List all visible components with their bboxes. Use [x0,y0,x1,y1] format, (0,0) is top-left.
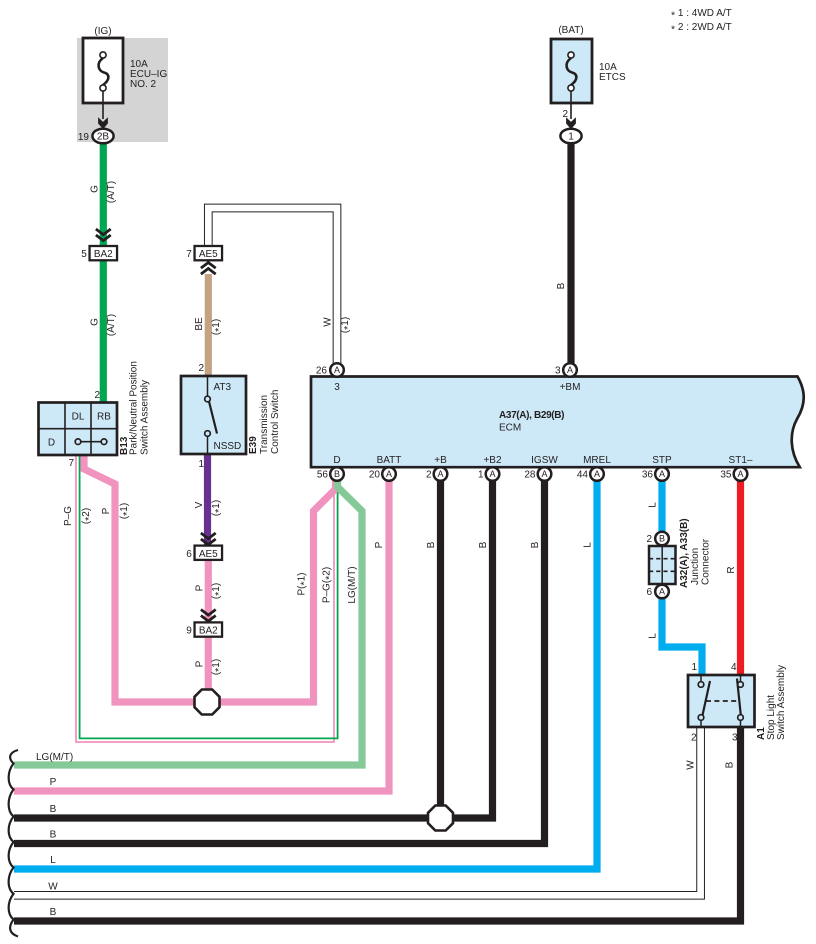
chevrons into connector BA2 pin 9 [201,610,216,622]
svg-text:6: 6 [646,587,652,598]
svg-text:A: A [437,469,443,479]
svg-text:NSSD: NSSD [214,441,242,452]
junction node (black splice) [428,806,453,831]
svg-text:(*​1): (*​1) [211,319,225,335]
svg-text:7: 7 [68,458,74,469]
svg-text:+BM: +BM [560,382,581,393]
connector AE5 pin 7 [195,246,223,260]
ECM top pin 26 (A) [330,363,344,377]
wire P (*1) junction node to ECM pin 56 [207,478,336,702]
svg-text:2: 2 [198,363,204,374]
svg-text:2: 2 [426,470,432,481]
svg-text:(A/T): (A/T) [106,181,117,203]
chevrons out of connector AE5 pin 7 [201,263,216,275]
svg-text:P: P [101,507,112,514]
svg-text:W: W [48,882,58,893]
ECM pin 56 (B) [330,467,344,481]
svg-text:P: P [195,660,206,667]
svg-text:IGSW: IGSW [531,455,558,466]
svg-text:6: 6 [186,549,192,560]
svg-text:7: 7 [186,249,192,260]
wire B ECM pin 1 +B2 to junction node [450,474,493,818]
svg-text:2: 2 [691,733,697,744]
svg-text:Junction: Junction [690,548,701,585]
svg-text:A: A [659,587,665,597]
svg-text:LG(M/T): LG(M/T) [36,752,73,763]
junction node (pink splice) [195,690,220,715]
connector BA2 pin 5 [90,246,118,260]
svg-text:A: A [737,469,743,479]
svg-text:G: G [90,318,101,326]
wire P-G (*2) B13 pin 7 to ECM pin 56 (pink strand) [76,455,334,742]
svg-text:BA2: BA2 [199,626,218,637]
svg-text:(*​1): (*​1) [211,583,225,599]
svg-text:B: B [334,469,340,479]
svg-text:D: D [333,455,340,466]
svg-text:R: R [726,566,737,573]
wire P (*1) B13 pin 7 to junction node [84,455,207,702]
wire L ECM pin 36 STP to junction connector [658,474,665,538]
svg-text:LG(M/T): LG(M/T) [347,566,358,603]
wire B ECM pin 2 +B to junction node [437,474,444,702]
svg-text:3: 3 [334,382,340,393]
svg-text:RB: RB [97,412,111,423]
svg-text:ECM: ECM [499,423,521,434]
svg-text:2: 2 [562,109,568,120]
switch E39 transmission control switch [181,376,246,454]
fuse block (IG) shaded area [77,38,168,142]
wire BE (*1) connector AE5 to E39 pin 2 [205,274,212,377]
svg-text:P–G: P–G [63,506,74,526]
svg-text:ETCS: ETCS [599,72,626,83]
svg-text:A32(A), A33(B): A32(A), A33(B) [679,518,690,588]
svg-text:B: B [659,534,665,544]
svg-text:L: L [648,633,659,639]
svg-text:B: B [50,907,57,918]
svg-text:B: B [426,541,437,548]
svg-text:L: L [583,542,594,548]
svg-text:(A/T): (A/T) [106,314,117,336]
svg-text:ST1–: ST1– [729,455,753,466]
wire W (*1) connector AE5 to ECM pin 26 (outline) [208,208,337,364]
svg-text:Switch Assembly: Switch Assembly [140,380,151,455]
svg-text:B: B [50,830,57,841]
svg-text:Connector: Connector [701,538,712,585]
svg-text:(IG): (IG) [94,26,111,37]
svg-text:W: W [686,760,697,770]
svg-text:G: G [90,185,101,193]
svg-text:A: A [659,469,665,479]
wire P ECM pin 20 BATT to left edge [14,474,389,791]
wire B ECM pin 28 IGSW to left edge [14,474,545,844]
wire LG(M/T) ECM pin 56 to left edge [14,478,362,765]
wire P-G (*2) B13 pin 7 to ECM pin 56 (green strand) [80,455,338,738]
svg-text:19: 19 [78,132,90,143]
switch blade E39 [209,402,217,434]
svg-text:P(*​1): P(*​1) [297,573,311,596]
svg-text:V: V [194,501,205,508]
svg-text:BA2: BA2 [94,249,113,260]
svg-text:E39: E39 [248,436,259,454]
svg-text:AE5: AE5 [199,549,218,560]
wire fuse ETCS pin 2 to connector 1 [570,91,572,119]
junction connector pin 6 (A) [655,585,669,599]
svg-text:P: P [195,584,206,591]
arrow into connector 2B [98,117,108,129]
connector AE5 pin 6 [195,546,223,560]
svg-text:Transmission: Transmission [259,395,270,454]
wire B stop light switch pin 3 to left edge [14,727,741,921]
ECM pin 28 (A) [538,467,552,481]
svg-text:A: A [567,365,573,375]
svg-text:A: A [541,469,547,479]
svg-text:26: 26 [316,366,328,377]
svg-text:NO. 2: NO. 2 [130,79,157,90]
ECM pin 36 (A) [655,467,669,481]
svg-text:B: B [50,804,57,815]
svg-text:A: A [386,469,392,479]
svg-text:(*​2): (*​2) [81,508,95,524]
svg-text:Control Switch: Control Switch [270,390,281,454]
svg-text:56: 56 [317,470,329,481]
wire B junction node to left edge [14,814,432,821]
ECM pin 20 (A) [382,467,396,481]
svg-text:P: P [374,541,385,548]
svg-text:1: 1 [478,470,484,481]
svg-text:A: A [489,469,495,479]
switch contacts B13 [78,441,104,443]
arrow into connector 1 [566,117,576,129]
wire B ECM pin 2 +B to junction node lower [437,702,444,811]
wire W stop light switch pin 2 to left edge (outline) [14,727,701,895]
svg-text:4: 4 [731,662,737,673]
svg-text:D: D [48,438,55,449]
wire L ECM pin 44 MREL to left edge [14,474,597,869]
svg-text:A: A [594,469,600,479]
switch B13 park/neutral position switch assembly [39,403,118,456]
svg-text:+B: +B [434,455,447,466]
svg-text:3: 3 [555,366,561,377]
ECM pin 35 (A) [734,467,748,481]
wire P (*1) connector BA2 to junction node [205,637,212,695]
svg-text:Park/Neutral Position: Park/Neutral Position [129,361,140,455]
svg-text:W: W [323,317,334,327]
svg-text:A37(A), B29(B): A37(A), B29(B) [499,410,564,421]
ECM pin 1 (A) [486,467,500,481]
continuation squiggle at left edge [9,750,18,937]
svg-text:2: 2 [94,390,100,401]
chevrons into connector BA2 pin 5 [96,229,111,241]
svg-text:B: B [478,541,489,548]
wire V (*1) E39 pin 1 to connector AE5 pin 6 [204,454,211,545]
svg-text:35: 35 [720,470,732,481]
svg-text:STP: STP [652,455,672,466]
wire G (A/T) connector BA2 to B13 pin 2 [100,260,107,403]
wire P (*1) connector AE5 to connector BA2 [205,560,212,622]
connector BA2 pin 9 [195,622,223,636]
fuse 10A ETCS (BAT) [551,39,592,103]
junction connector pin 2 (B) [655,532,669,546]
stop light switch mechanical link [706,700,737,702]
svg-text:Switch Assembly: Switch Assembly [776,665,787,740]
svg-text:(*​1): (*​1) [119,503,133,519]
wire G (A/T) fuse ECU-IG to connector BA2 [100,140,107,246]
svg-text:L: L [50,855,56,866]
ECM pin 44 (A) [590,467,604,481]
wire fuse to connector 2B [102,91,104,119]
svg-text:1: 1 [691,662,697,673]
svg-text:2B: 2B [97,132,110,143]
svg-text:36: 36 [642,470,654,481]
svg-text:*​ 1 : 4WD A/T: *​ 1 : 4WD A/T [671,8,732,21]
svg-text:9: 9 [186,626,192,637]
svg-text:44: 44 [577,470,589,481]
wire R ECM pin 35 ST1- to stop light switch pin 4 [737,474,744,676]
svg-text:+B2: +B2 [483,455,502,466]
svg-text:(*​1): (*​1) [211,500,225,516]
ECM top pin 3 (A) +BM [563,363,577,377]
wire L junction connector to stop light switch pin 1 [662,584,702,676]
stop light switch contacts right [740,675,742,682]
svg-text:B: B [725,761,736,768]
svg-text:L: L [648,502,659,508]
chevrons into connector AE5 pin 6 [201,533,216,545]
svg-text:MREL: MREL [583,455,611,466]
connector 1 [560,129,581,144]
svg-text:3: 3 [732,733,738,744]
svg-text:BATT: BATT [377,455,402,466]
svg-text:20: 20 [369,470,381,481]
ECM A37(A) B29(B) box [311,377,804,468]
ECM pin 2 (A) [434,467,448,481]
svg-text:5: 5 [81,249,87,260]
svg-text:BE: BE [194,317,205,331]
svg-text:AT3: AT3 [214,382,232,393]
fuse 10A ECU-IG NO.2 (IG) [83,38,123,103]
svg-text:B: B [530,541,541,548]
svg-text:A: A [334,365,340,375]
wire W stop light switch pin 2 to left edge (white core) [14,727,701,895]
junction connector A32(A) A33(B) box [649,546,676,584]
svg-text:P: P [50,777,57,788]
svg-text:2: 2 [646,534,652,545]
svg-text:(*​1): (*​1) [211,659,225,675]
wire W (*1) connector AE5 to ECM pin 26 (white core) [208,208,337,364]
stop light switch A1 box [688,675,755,727]
svg-text:1: 1 [198,459,204,470]
connector 2B pin 19 [92,129,113,144]
svg-text:DL: DL [72,412,85,423]
svg-text:1: 1 [568,132,574,143]
svg-text:28: 28 [524,470,536,481]
stop light switch contacts left [700,675,702,682]
svg-text:(*​1): (*​1) [340,317,354,333]
svg-text:AE5: AE5 [199,249,218,260]
wire B fuse ETCS to ECM pin 3 +BM [567,140,574,365]
svg-text:*​ 2 : 2WD A/T: *​ 2 : 2WD A/T [671,22,732,35]
svg-text:B: B [556,282,567,289]
svg-text:(BAT): (BAT) [558,25,583,36]
